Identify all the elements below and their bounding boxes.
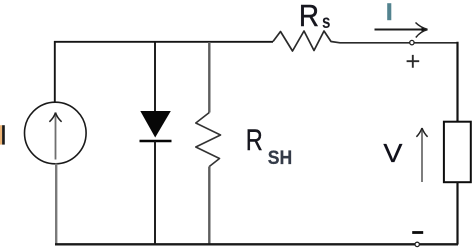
svg-text:s: s (322, 10, 330, 32)
svg-text:V: V (383, 138, 402, 167)
svg-text:SH: SH (268, 147, 292, 169)
svg-text:R: R (246, 123, 263, 156)
svg-text:R: R (299, 0, 319, 33)
